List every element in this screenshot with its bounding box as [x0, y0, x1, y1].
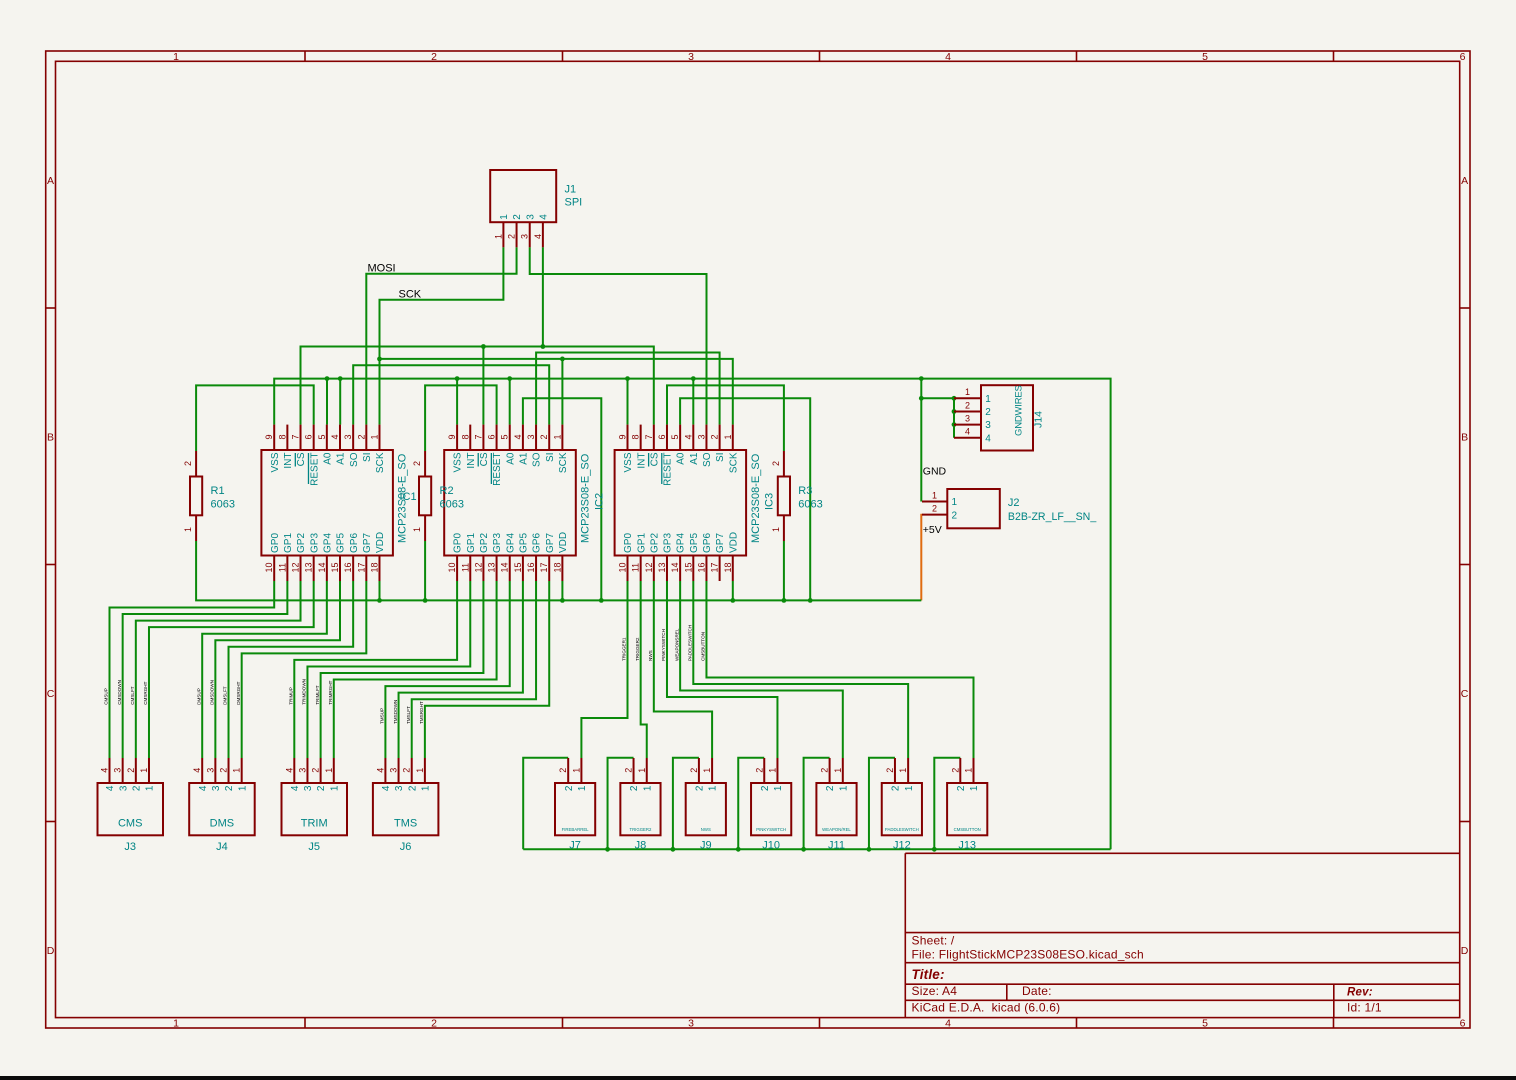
pin 6 stub IC1	[313, 425, 315, 450]
wire R1 to IC1.RESET	[196, 385, 314, 451]
wire GND drop to IC1.A0	[326, 379, 328, 425]
svg-text:CMSBUTTON: CMSBUTTON	[701, 632, 706, 661]
svg-text:4: 4	[533, 234, 543, 239]
svg-text:5: 5	[317, 434, 327, 439]
junction VDD/IC3.VDD	[730, 598, 735, 603]
svg-text:2: 2	[412, 461, 422, 466]
svg-text:GP6: GP6	[349, 533, 360, 553]
wire J9.2 ground loop	[673, 758, 699, 850]
overline CS IC3	[648, 453, 650, 467]
wire IC2.VDD to VDD bus	[561, 581, 563, 600]
svg-text:4: 4	[284, 768, 294, 773]
svg-text:Size: A4: Size: A4	[912, 984, 958, 998]
svg-text:4: 4	[100, 768, 110, 773]
junction VDD/IC2.A1	[599, 598, 604, 603]
svg-text:CMS: CMS	[118, 817, 142, 829]
svg-text:TMS: TMS	[394, 817, 417, 829]
svg-text:B2B-ZR_LF__SN_: B2B-ZR_LF__SN_	[1008, 511, 1097, 523]
svg-text:1: 1	[232, 768, 242, 773]
svg-text:MCP23S08-E_SO: MCP23S08-E_SO	[580, 453, 592, 543]
connector J10 PINKYSWITCH	[751, 758, 791, 852]
pin 16 stub IC3	[705, 556, 707, 582]
svg-text:Id: 1/1: Id: 1/1	[1347, 1000, 1382, 1014]
pin 1 stub J12	[907, 758, 909, 783]
pin 15 stub IC1	[339, 556, 341, 582]
svg-text:3: 3	[205, 768, 215, 773]
svg-text:GNDWIRES: GNDWIRES	[1014, 385, 1025, 436]
pin 8 stub IC1	[286, 425, 288, 450]
junction J14.1	[952, 396, 957, 401]
svg-text:2: 2	[402, 768, 412, 773]
pin 4 stub J5	[293, 758, 295, 783]
junction J14.2	[952, 409, 957, 414]
svg-text:3: 3	[688, 51, 694, 63]
wire J8.2 ground loop	[608, 758, 634, 850]
svg-text:GP5: GP5	[336, 533, 347, 553]
resistor R1 6063	[183, 451, 235, 541]
svg-text:4: 4	[945, 51, 951, 63]
svg-text:C: C	[1461, 688, 1469, 700]
wire IC2.GP0 to J5 (TRIMUP)	[294, 581, 457, 758]
svg-text:VDD: VDD	[558, 532, 569, 553]
pin 5 stub IC1	[326, 425, 328, 450]
svg-text:TRIMUP: TRIMUP	[289, 687, 294, 705]
wire IC2.A1 to VDD bus	[523, 398, 601, 600]
svg-text:SPI: SPI	[565, 197, 583, 209]
svg-text:CS: CS	[479, 452, 490, 466]
svg-text:TMSDOWN: TMSDOWN	[393, 700, 398, 724]
svg-text:Sheet: /: Sheet: /	[912, 934, 955, 948]
wire IC1.GP4 to J4 (DMSUP)	[202, 581, 327, 758]
svg-text:A0: A0	[676, 452, 687, 465]
svg-text:2: 2	[771, 461, 781, 466]
pin 18 stub IC1	[378, 556, 380, 582]
svg-text:B: B	[47, 431, 54, 443]
svg-text:A1: A1	[689, 452, 700, 465]
svg-text:2: 2	[952, 510, 958, 521]
connector J2 B2B-ZR_LF__SN_	[922, 489, 1097, 528]
wire IC1.GP1 to J3 (CMSDOWN)	[123, 581, 288, 758]
overline RESET IC1	[307, 453, 309, 484]
wire CS drop to IC2.CS	[482, 347, 484, 425]
svg-text:2: 2	[891, 785, 902, 791]
svg-text:1: 1	[985, 394, 991, 405]
svg-text:2: 2	[760, 785, 771, 791]
svg-text:7: 7	[473, 434, 483, 439]
svg-text:10: 10	[264, 562, 274, 572]
svg-text:J6: J6	[400, 841, 412, 853]
junction VDD/IC3.A0	[808, 598, 813, 603]
svg-text:GND: GND	[923, 465, 947, 477]
svg-text:PINKYSWITCH: PINKYSWITCH	[661, 629, 666, 661]
svg-text:5: 5	[1202, 51, 1208, 63]
svg-text:J14: J14	[1033, 411, 1045, 428]
svg-text:RESET: RESET	[663, 453, 674, 486]
svg-text:CMSBUTTON: CMSBUTTON	[954, 827, 981, 832]
svg-text:1: 1	[173, 1018, 179, 1030]
wire R3 bottom to VDD bus	[783, 541, 785, 600]
svg-text:2: 2	[629, 785, 640, 791]
svg-text:1: 1	[637, 768, 647, 773]
svg-text:2: 2	[624, 768, 634, 773]
svg-text:13: 13	[304, 562, 314, 572]
svg-text:3: 3	[965, 413, 970, 423]
svg-text:8: 8	[631, 434, 641, 439]
pin 1 stub R3	[783, 515, 785, 541]
pin 4 stub IC1	[339, 425, 341, 450]
svg-text:GP1: GP1	[466, 533, 477, 553]
pin 15 stub IC2	[522, 556, 524, 582]
pin 18 stub IC2	[561, 556, 563, 582]
svg-text:1: 1	[237, 785, 248, 791]
svg-text:DMSDOWN: DMSDOWN	[210, 680, 215, 705]
wire IC2.GP7 to J6 (TMSRGHT)	[425, 581, 549, 758]
svg-text:A: A	[1461, 175, 1468, 187]
pin 2 stub IC3	[719, 425, 721, 450]
svg-text:J3: J3	[124, 841, 136, 853]
svg-text:TMSUP: TMSUP	[380, 708, 385, 724]
wire VDD bus	[196, 541, 921, 600]
svg-text:SO: SO	[702, 452, 713, 467]
svg-text:12: 12	[473, 562, 483, 572]
wire IC2.GP2 to J5 (TRIMLFT)	[321, 581, 484, 758]
svg-text:1: 1	[415, 768, 425, 773]
svg-text:10: 10	[618, 562, 628, 572]
wire GND drop to IC3.VSS	[627, 379, 629, 425]
svg-text:GP1: GP1	[283, 533, 294, 553]
pin 2 stub IC1	[365, 425, 367, 450]
junction GND bus/vertical	[919, 376, 924, 381]
svg-text:18: 18	[552, 562, 562, 572]
svg-text:6: 6	[304, 434, 314, 439]
svg-text:1: 1	[183, 527, 193, 532]
svg-text:2: 2	[316, 785, 327, 791]
connector J12 PADDLESWITCH	[882, 758, 922, 852]
svg-text:GP5: GP5	[519, 533, 530, 553]
svg-text:PADDLESWITCH: PADDLESWITCH	[688, 625, 693, 661]
svg-text:MCP23S08-E_SO: MCP23S08-E_SO	[750, 453, 762, 543]
svg-text:IC3: IC3	[764, 493, 776, 510]
svg-text:J5: J5	[308, 841, 320, 853]
connector J13 CMSBUTTON	[947, 758, 987, 852]
pin 3 stub J6	[398, 758, 400, 783]
pin 3 stub J1	[529, 222, 531, 247]
junction GND/IC2.VSS	[455, 376, 460, 381]
svg-text:2: 2	[407, 785, 418, 791]
svg-text:R2: R2	[440, 485, 454, 497]
pin 4 stub J3	[109, 758, 111, 783]
wire IC2.GP1 to J5 (TRIMDOWN)	[307, 581, 470, 758]
junction GND/IC1.A0	[325, 376, 330, 381]
svg-text:J9: J9	[700, 840, 712, 852]
svg-text:2: 2	[695, 785, 706, 791]
svg-text:GP6: GP6	[532, 533, 543, 553]
pin 14 stub IC1	[326, 556, 328, 582]
pin 16 stub IC1	[352, 556, 354, 582]
svg-text:NWS: NWS	[648, 650, 653, 661]
pin 1 stub J11	[842, 758, 844, 783]
wire GND vertical to J2.1	[920, 379, 922, 502]
connector J11 WEAPON/REL	[816, 758, 856, 852]
pin 2 stub J12	[894, 758, 896, 783]
pin 10 stub IC1	[273, 556, 275, 582]
svg-text:IC1: IC1	[400, 491, 417, 503]
title block	[905, 853, 1459, 1017]
pin 5 stub IC2	[509, 425, 511, 450]
svg-text:9: 9	[264, 434, 274, 439]
svg-text:2: 2	[431, 1018, 437, 1030]
pin 1 stub J9	[711, 758, 713, 783]
junction GND/J14.1	[919, 396, 924, 401]
wire SCK drop to IC2.SCK	[561, 359, 563, 425]
svg-text:3: 3	[118, 785, 129, 791]
svg-text:1: 1	[932, 490, 937, 500]
svg-text:J4: J4	[216, 841, 228, 853]
svg-text:SI: SI	[715, 453, 726, 462]
svg-text:6: 6	[1460, 51, 1466, 63]
pin 9 stub IC3	[627, 425, 629, 450]
pin 4 stub IC3	[692, 425, 694, 450]
svg-text:3: 3	[696, 434, 706, 439]
pin 2 stub J3	[135, 758, 137, 783]
svg-text:CMSDOWN: CMSDOWN	[117, 680, 122, 705]
svg-text:8: 8	[277, 434, 287, 439]
svg-text:TRIMLFT: TRIMLFT	[315, 685, 320, 705]
wire IC1.GP2 to J3 (CMSLFT)	[136, 581, 301, 758]
svg-text:1: 1	[833, 768, 843, 773]
pin 3 stub J5	[306, 758, 308, 783]
svg-text:2: 2	[224, 785, 235, 791]
pin 10 stub IC2	[456, 556, 458, 582]
svg-text:2: 2	[507, 234, 517, 239]
svg-text:2: 2	[512, 214, 523, 220]
svg-text:4: 4	[965, 427, 970, 437]
svg-text:KiCad E.D.A. kicad (6.0.6): KiCad E.D.A. kicad (6.0.6)	[912, 1000, 1061, 1014]
svg-text:D: D	[1461, 945, 1469, 957]
svg-text:J2: J2	[1008, 497, 1020, 509]
pin 1 stub J5	[333, 758, 335, 783]
pin 7 stub IC3	[653, 425, 655, 450]
wire IC2.SO to IC3.SI	[536, 353, 720, 425]
svg-text:Title:: Title:	[912, 967, 945, 982]
svg-text:14: 14	[670, 562, 680, 572]
svg-text:3: 3	[526, 434, 536, 439]
wire IC2.GP3 to J5 (TRIMRGHT)	[334, 581, 497, 758]
wire J13.2 ground loop	[934, 758, 960, 850]
pin 1 stub J4	[241, 758, 243, 783]
svg-text:INT: INT	[636, 453, 647, 469]
svg-text:SCK: SCK	[399, 288, 422, 300]
svg-text:2: 2	[311, 768, 321, 773]
pin 2 stub J7	[567, 758, 569, 783]
pin 5 stub IC3	[679, 425, 681, 450]
junction J14.3	[952, 422, 957, 427]
svg-text:SO: SO	[532, 452, 543, 467]
overline CS IC2	[477, 453, 479, 467]
svg-text:8: 8	[460, 434, 470, 439]
svg-text:1: 1	[329, 785, 340, 791]
wire IC3.GP1 to J8.1 (TRIGGER2)	[641, 581, 647, 758]
svg-text:J1: J1	[565, 184, 577, 196]
wire IC3.A0 to VDD bus	[680, 398, 810, 600]
svg-text:3: 3	[688, 1018, 694, 1030]
junction GND/IC3.A1	[691, 376, 696, 381]
pin 3 stub IC3	[705, 425, 707, 450]
svg-text:15: 15	[683, 562, 693, 572]
pin 2 stub J8	[633, 758, 635, 783]
pin 1 stub J2	[922, 501, 947, 503]
wire IC3.VDD to VDD bus	[732, 581, 734, 600]
svg-text:3: 3	[985, 420, 991, 431]
svg-text:6: 6	[657, 434, 667, 439]
svg-text:14: 14	[317, 562, 327, 572]
pin 14 stub IC2	[509, 556, 511, 582]
svg-text:GP6: GP6	[702, 533, 713, 553]
svg-text:2: 2	[131, 785, 142, 791]
svg-text:SCK: SCK	[375, 452, 386, 473]
pin 2 stub J10	[763, 758, 765, 783]
svg-text:TMSRGHT: TMSRGHT	[419, 701, 424, 724]
svg-text:13: 13	[487, 562, 497, 572]
junction bottom bus/J12	[867, 847, 872, 852]
svg-text:GP7: GP7	[715, 533, 726, 553]
junction CS/IC2	[481, 344, 486, 349]
svg-text:VSS: VSS	[453, 452, 464, 472]
svg-text:1: 1	[898, 768, 908, 773]
svg-text:3: 3	[303, 785, 314, 791]
junction GND/IC1.A1	[338, 376, 343, 381]
svg-text:16: 16	[696, 562, 706, 572]
svg-text:18: 18	[369, 562, 379, 572]
pin 13 stub IC3	[666, 556, 668, 582]
pin 17 stub IC3	[719, 556, 721, 582]
svg-text:1: 1	[493, 234, 503, 239]
svg-text:16: 16	[526, 562, 536, 572]
svg-text:2: 2	[820, 768, 830, 773]
svg-text:2: 2	[950, 768, 960, 773]
svg-text:18: 18	[723, 562, 733, 572]
pin 4 stub J4	[201, 758, 203, 783]
svg-text:GP4: GP4	[676, 533, 687, 553]
pin 13 stub IC1	[313, 556, 315, 582]
pin 11 stub IC2	[469, 556, 471, 582]
pin 1 stub IC2	[561, 425, 563, 450]
junction GND/IC3.VSS	[625, 376, 630, 381]
svg-text:TRIMRGHT: TRIMRGHT	[328, 680, 333, 704]
svg-text:6063: 6063	[440, 499, 464, 511]
pin 1 stub R1	[195, 515, 197, 541]
svg-text:13: 13	[657, 562, 667, 572]
svg-text:CMSRGHT: CMSRGHT	[143, 681, 148, 704]
svg-text:1: 1	[838, 785, 849, 791]
pin 3 stub IC2	[535, 425, 537, 450]
svg-text:2: 2	[539, 434, 549, 439]
svg-text:1: 1	[964, 768, 974, 773]
svg-text:3: 3	[113, 768, 123, 773]
connector J9 NWS	[686, 758, 726, 852]
svg-text:GP1: GP1	[636, 533, 647, 553]
pin 18 stub IC3	[732, 556, 734, 582]
junction GND/IC2.A0	[507, 376, 512, 381]
svg-text:PADDLESWITCH: PADDLESWITCH	[885, 827, 919, 832]
svg-text:17: 17	[539, 562, 549, 572]
svg-text:6: 6	[1460, 1018, 1466, 1030]
svg-text:2: 2	[754, 768, 764, 773]
svg-text:10: 10	[447, 562, 457, 572]
svg-text:15: 15	[513, 562, 523, 572]
svg-text:TRIGGER2: TRIGGER2	[629, 827, 652, 832]
svg-text:SI: SI	[545, 453, 556, 462]
connector J5 TRIM	[282, 758, 348, 853]
svg-text:CS: CS	[649, 452, 660, 466]
wire IC3.GP2 to J9.1 (NWS)	[654, 581, 712, 758]
svg-text:2: 2	[558, 768, 568, 773]
pin 4 stub J14	[954, 437, 981, 439]
junction SCK/IC2	[560, 357, 565, 362]
svg-text:GP4: GP4	[505, 533, 516, 553]
pin 2 stub J13	[959, 758, 961, 783]
pin 7 stub IC1	[300, 425, 302, 450]
IC U3: MCP23S08-E_SO IC3	[615, 425, 776, 581]
pin 1 stub J1	[502, 222, 504, 247]
svg-text:TMSLFT: TMSLFT	[406, 706, 411, 724]
svg-text:1: 1	[969, 785, 980, 791]
svg-text:7: 7	[291, 434, 301, 439]
wire CS J1.4 down to CS bus	[542, 247, 544, 346]
junction bottom bus/J9	[671, 847, 676, 852]
svg-text:INT: INT	[466, 453, 477, 469]
pin 8 stub IC2	[469, 425, 471, 450]
pin 2 stub J14	[954, 410, 981, 412]
IC U1: MCP23S08-E_SO IC1	[261, 425, 416, 581]
pin 1 stub R2	[424, 515, 426, 541]
wire GND drop to IC2.VSS	[456, 379, 458, 425]
svg-text:1: 1	[767, 768, 777, 773]
svg-text:1: 1	[965, 387, 970, 397]
svg-text:14: 14	[500, 562, 510, 572]
svg-text:1: 1	[173, 51, 179, 63]
svg-text:1: 1	[139, 768, 149, 773]
svg-text:2: 2	[932, 503, 937, 513]
svg-text:RESET: RESET	[309, 453, 320, 486]
svg-text:9: 9	[618, 434, 628, 439]
svg-text:1: 1	[324, 768, 334, 773]
svg-text:9: 9	[447, 434, 457, 439]
svg-text:MOSI: MOSI	[368, 262, 396, 274]
wire CS bus IC1.CS to IC3.CS	[301, 347, 654, 425]
svg-text:2: 2	[356, 434, 366, 439]
svg-text:DMSUP: DMSUP	[196, 688, 201, 705]
svg-text:6: 6	[487, 434, 497, 439]
svg-text:GP7: GP7	[545, 533, 556, 553]
svg-text:1: 1	[708, 785, 719, 791]
svg-text:C: C	[47, 688, 55, 700]
svg-text:A1: A1	[519, 452, 530, 465]
pin 2 stub R2	[424, 451, 426, 477]
svg-text:2: 2	[431, 51, 437, 63]
wire IC3.GP5 to J12.1 (PADDLESWITCH)	[693, 581, 908, 758]
pin 15 stub IC3	[692, 556, 694, 582]
svg-text:VSS: VSS	[623, 452, 634, 472]
pin 3 stub J4	[214, 758, 216, 783]
svg-text:16: 16	[343, 562, 353, 572]
pin 12 stub IC1	[300, 556, 302, 582]
svg-text:VDD: VDD	[375, 532, 386, 553]
svg-text:1: 1	[145, 785, 156, 791]
pin 1 stub J8	[646, 758, 648, 783]
pin 2 stub J11	[829, 758, 831, 783]
pin 2 stub J4	[228, 758, 230, 783]
